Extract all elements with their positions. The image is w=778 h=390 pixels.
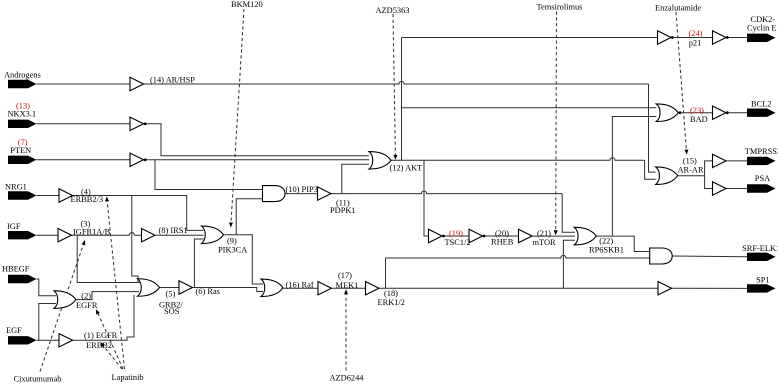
- output arrow SRF-ELK1: [747, 253, 776, 261]
- svg-text:mTOR: mTOR: [533, 238, 557, 247]
- buffer (8) IRS1: [142, 229, 156, 242]
- dashed line BKM120 to PIK3CA: [231, 9, 244, 223]
- svg-text:Cixutumumab: Cixutumumab: [14, 375, 62, 384]
- wire ERK branch up at x=563.4 to RP6SKB1 gate input 3: [563, 240, 575, 288]
- buffer (21) mTOR: [519, 229, 533, 242]
- input arrow Androgens: [8, 80, 37, 88]
- dashed line Temsirolimus to mTOR output: [555, 12, 558, 231]
- or-gate (5) GRB2/SOS: [138, 279, 160, 297]
- and-gate (10) PIP3: [263, 186, 286, 202]
- svg-text:NRG1: NRG1: [5, 183, 27, 192]
- svg-text:AR-AR: AR-AR: [678, 166, 704, 175]
- svg-text:(20): (20): [495, 229, 509, 238]
- buffer (24) p21: [658, 31, 672, 44]
- svg-text:IGFR1A/B: IGFR1A/B: [73, 228, 111, 237]
- wire BAD output to buffer: [679, 112, 713, 114]
- wire IGFR1A/B output to IRS1 buffer (hops over ERBB2/3 vertical): [72, 233, 142, 236]
- buffer (17) MEK1: [318, 282, 332, 295]
- svg-text:BCL2: BCL2: [751, 100, 771, 109]
- wire Androgens input to AR/HSP buffer: [37, 83, 131, 85]
- dashed line Enzalutamide to AR-AR: [676, 12, 686, 150]
- svg-text:(2): (2): [81, 291, 91, 300]
- buffer to SP1: [658, 282, 672, 295]
- wire p21 line from x=401.5 to (24) buffer: [402, 37, 658, 39]
- svg-text:EGFR: EGFR: [76, 301, 98, 310]
- wire buffer output to CDK2-CyclinE arrow: [726, 37, 747, 39]
- wire RHEB output to mTOR buffer: [483, 235, 519, 237]
- buffer (11) PDPK1: [318, 187, 332, 200]
- wire RP6SKB1 output right then down to SRF-ELK1 AND top input: [596, 236, 650, 251]
- svg-text:BAD: BAD: [690, 115, 708, 124]
- wire AKT output right (hops over RP6SKB1-BAD vertical at x=612.4): [391, 158, 645, 161]
- wire IGF input to (3) buffer: [37, 234, 59, 236]
- svg-text:(16) Raf: (16) Raf: [286, 280, 314, 289]
- wire AKT output corner down at x=644.6 to AR-AR gate input 2: [645, 160, 656, 179]
- input arrow IGF: [8, 231, 37, 239]
- svg-text:HBEGF: HBEGF: [2, 264, 30, 273]
- wire AKT branch down at x=424 to TSC1/2 buffer: [424, 160, 429, 236]
- wire PDPK1 line corner down at x=562.2 to RP6SKB1 gate input 1: [562, 194, 575, 233]
- svg-text:ERBB2/3: ERBB2/3: [71, 195, 104, 204]
- junction dot NKX3.1 buffer output: [144, 122, 147, 125]
- dashed line Lapatinib to ERBB2 (1): [104, 346, 123, 369]
- wire BAD top input from p21 vertical at y=107.7: [402, 107, 657, 109]
- output arrow PSA: [747, 184, 776, 192]
- wire GRB2/SOS output to Ras buffer: [160, 287, 180, 289]
- wire RP6SKB1 branch up at x=612.4 to BAD gate input 2: [612, 117, 656, 237]
- wire ERBB2/3 output right then down at x=186.7 to PIK3CA input 1: [73, 196, 204, 231]
- arrowhead AZD5363 at AKT: [393, 155, 397, 160]
- input arrow HBEGF: [8, 275, 37, 283]
- wire AKT output branch up at x=401.5 to p21 line: [401, 38, 403, 161]
- svg-text:Lapatinib: Lapatinib: [112, 373, 144, 382]
- junction dot CDK2 buffer output: [726, 36, 729, 39]
- wire AR/HSP corner down at x=648.5 to AR-AR gate input 1: [649, 84, 656, 172]
- wire PDPK1 branch up at x=341.8 to AKT gate input 3: [342, 164, 369, 193]
- wire ERK branch up at x=385.5 to SRF-ELK1 AND gate bottom input (hop at x=563.4 drawn on that line): [385, 258, 387, 288]
- svg-text:(23): (23): [690, 106, 704, 115]
- svg-text:SOS: SOS: [164, 307, 180, 316]
- wire HBEGF input down to EGFR gate input 1: [37, 279, 57, 296]
- dashed line Lapatinib to EGFR (2): [98, 313, 123, 369]
- svg-text:ERBB2: ERBB2: [86, 341, 112, 350]
- or-gate (23) BAD: [656, 104, 678, 122]
- buffer PTEN (7): [130, 153, 144, 166]
- svg-text:(19): (19): [449, 229, 463, 238]
- wire ERK1/2 output long line to SP1 buffer: [379, 287, 658, 289]
- buffer (1) EGFR ERBB2: [59, 334, 73, 347]
- dashed line AZD6244 to MEK1 output: [345, 294, 347, 371]
- dashed line AZD5363 to AKT output: [393, 14, 395, 155]
- svg-text:Androgens: Androgens: [4, 71, 41, 80]
- buffer NKX3.1 (13): [130, 117, 144, 130]
- svg-text:PIK3CA: PIK3CA: [218, 245, 247, 254]
- svg-text:ERK1/2: ERK1/2: [378, 298, 405, 307]
- svg-text:TSC1/2: TSC1/2: [445, 238, 471, 247]
- svg-text:Enzalutamide: Enzalutamide: [655, 3, 701, 12]
- svg-text:SRF-ELK1: SRF-ELK1: [742, 244, 778, 253]
- svg-text:(9): (9): [227, 236, 237, 245]
- svg-text:(14) AR/HSP: (14) AR/HSP: [150, 75, 195, 84]
- wire EGFR/ERBB2 (1) output right and up to GRB2/SOS bottom: [73, 295, 135, 340]
- arrowhead Lapatinib at EGFR: [96, 309, 100, 314]
- wire buffer output to BCL2 arrow: [726, 112, 747, 114]
- wire TSC1/2 output to RHEB buffer: [442, 235, 469, 237]
- junction dot TSC1/2 output: [442, 235, 445, 238]
- buffer (3) IGFR1A/B: [58, 229, 72, 242]
- svg-text:Temsirolimus: Temsirolimus: [537, 3, 583, 12]
- svg-text:TMPRSS2: TMPRSS2: [745, 147, 778, 156]
- wire NKX3.1 buffer output right then down to AKT gate input 1: [144, 124, 370, 156]
- wire PTEN buffer output to AKT gate input 2: [144, 159, 370, 161]
- wire EGFR (2) output right and up to GRB2/SOS input 2: [76, 292, 139, 300]
- wire NRG1 input to (4) buffer: [37, 195, 60, 197]
- svg-text:PTEN: PTEN: [10, 146, 31, 155]
- svg-text:AZD6244: AZD6244: [330, 373, 365, 382]
- svg-text:(1) EGFR: (1) EGFR: [84, 331, 118, 340]
- buffer (20) RHEB: [469, 229, 483, 242]
- wire Ras branch up at x=194.4 to PIK3CA input 3: [194, 239, 203, 288]
- buffer (14) AR/HSP: [130, 77, 144, 90]
- output arrow BCL2: [747, 109, 776, 117]
- output arrow TMPRSS2: [747, 157, 776, 165]
- wire (24) p21 output to next buffer: [671, 37, 713, 39]
- dashed line Cixutumumab to IGFR1A/B: [40, 245, 83, 372]
- svg-text:IGF: IGF: [7, 222, 21, 231]
- svg-text:p21: p21: [689, 38, 702, 47]
- svg-text:(6) Ras: (6) Ras: [196, 287, 220, 296]
- arrowhead Lapatinib at ERBB2/3: [105, 196, 109, 201]
- or-gate (2) EGFR: [54, 291, 76, 309]
- svg-text:SP1: SP1: [756, 276, 770, 285]
- wire NKX3.1 input to buffer: [37, 123, 131, 125]
- svg-text:(21): (21): [537, 229, 551, 238]
- svg-text:RHEB: RHEB: [491, 238, 514, 247]
- wire AR-AR output right to branch at x=704.6: [678, 175, 705, 177]
- wire TMPRSS2 buffer output to arrow: [726, 160, 747, 162]
- junction dot BAD gate output: [679, 111, 682, 114]
- junction dot BCL2 buffer output: [726, 111, 729, 114]
- svg-text:(24): (24): [689, 29, 703, 38]
- svg-text:EGF: EGF: [6, 326, 22, 335]
- wire PDPK1 output long line to x=562.2 (hops over AKT-TSC vertical at x=424): [331, 191, 562, 194]
- junction dot PTEN buffer output: [144, 158, 147, 161]
- junction dot p21 buffer output: [671, 36, 674, 39]
- svg-text:(10) PIP3: (10) PIP3: [286, 185, 318, 194]
- wire SP1 buffer output to arrow: [672, 287, 748, 289]
- wire mTOR output to RP6SKB1 gate input 2: [532, 235, 575, 237]
- wire IGFR branch down at x=77.2 to GRB2/SOS top input line: [77, 235, 140, 282]
- svg-text:(8) IRS1: (8) IRS1: [159, 226, 188, 235]
- wire AR/HSP output long line (hops over p21 vertical at x=401.5): [144, 81, 649, 84]
- buffer after p21 to CDK2: [713, 31, 727, 44]
- wire SRF-ELK1 AND bottom input line from ERK branch (hops over x=563.4 vertical): [386, 255, 650, 258]
- arrowhead Enzalutamide at AR-AR: [684, 149, 688, 154]
- arrowhead BKM120 at PIK3CA: [229, 222, 233, 227]
- wire PTEN branch down at x=155 to PIP3 AND gate input 1: [155, 160, 263, 190]
- wire Raf output to MEK1 buffer: [283, 287, 318, 289]
- wire SRF-ELK1 AND output to arrow: [672, 255, 747, 258]
- wire PIP3 AND output to PDPK1 buffer: [285, 193, 318, 195]
- wire PSA buffer output to arrow: [726, 188, 747, 190]
- svg-text:(22): (22): [599, 236, 613, 245]
- wire branch down to PSA buffer: [705, 176, 713, 189]
- wire PTEN input to buffer: [37, 159, 131, 161]
- or-gate (15) AR-AR: [656, 167, 678, 185]
- or-gate (16) Raf: [261, 279, 283, 297]
- svg-text:(15): (15): [683, 156, 697, 165]
- buffer after BAD to BCL2: [713, 106, 727, 119]
- svg-text:Cyclin E: Cyclin E: [747, 23, 777, 32]
- and-gate SRF-ELK1: [650, 248, 673, 264]
- svg-text:NKX3.1: NKX3.1: [8, 110, 37, 119]
- wire IRS1 output to PIK3CA input 2: [155, 234, 204, 236]
- buffer to TMPRSS2: [713, 154, 727, 167]
- wire MEK1 output to ERK1/2 buffer: [332, 287, 366, 289]
- wire branch up to TMPRSS2 buffer: [705, 161, 713, 176]
- arrowhead Temsirolimus at mTOR: [554, 230, 558, 235]
- svg-text:PDPK1: PDPK1: [330, 206, 356, 215]
- wire PIK3CA branch up at x=236.2 to PIP3 AND gate input 2: [236, 199, 262, 235]
- buffer (19) TSC1/2: [429, 229, 443, 242]
- svg-text:PSA: PSA: [755, 174, 770, 183]
- output arrow CDK2-Cyclin E: [747, 34, 776, 42]
- or-gate (12) AKT: [369, 152, 391, 170]
- input arrow PTEN: [8, 156, 37, 164]
- input arrow NRG1: [8, 191, 37, 199]
- svg-text:AZD5363: AZD5363: [376, 6, 410, 15]
- junction dot RHEB output: [483, 235, 486, 238]
- buffer (4) ERBB2/3: [59, 189, 73, 202]
- wire EGF branch up at x=38.8 to EGFR gate input 2: [39, 304, 56, 341]
- input arrow NKX3.1: [8, 120, 37, 128]
- svg-text:MEK1: MEK1: [336, 281, 359, 290]
- buffer (6) Ras: [179, 281, 193, 294]
- input arrow EGF: [8, 336, 37, 344]
- arrowhead AZD6244 at MEK1: [344, 289, 348, 294]
- svg-text:BKM120: BKM120: [231, 0, 263, 9]
- buffer to PSA: [713, 182, 727, 195]
- svg-text:(12) AKT: (12) AKT: [390, 164, 423, 173]
- buffer (18) ERK1/2: [366, 282, 380, 295]
- arrowhead Lapatinib at ERBB2: [100, 342, 105, 347]
- svg-text:(17): (17): [338, 271, 352, 280]
- dashed line Lapatinib to ERBB2/3: [107, 202, 124, 369]
- wire ERBB2/3 branch down at x=131.8 to GRB2/SOS top input: [132, 196, 138, 283]
- wire PIK3CA output right then down to Raf gate input 1: [224, 235, 264, 284]
- output arrow SP1: [747, 284, 776, 292]
- wire Ras output to Raf gate input 2 with jog: [193, 288, 264, 292]
- svg-text:(5): (5): [166, 290, 176, 299]
- arrowhead Cixutumumab at IGFR1A/B: [82, 240, 86, 245]
- svg-text:RP6SKB1: RP6SKB1: [589, 245, 624, 254]
- or-gate (22) RP6SKB1: [574, 227, 596, 245]
- wire EGF input to (1) buffer: [37, 339, 60, 341]
- or-gate (9) PIK3CA: [202, 226, 224, 244]
